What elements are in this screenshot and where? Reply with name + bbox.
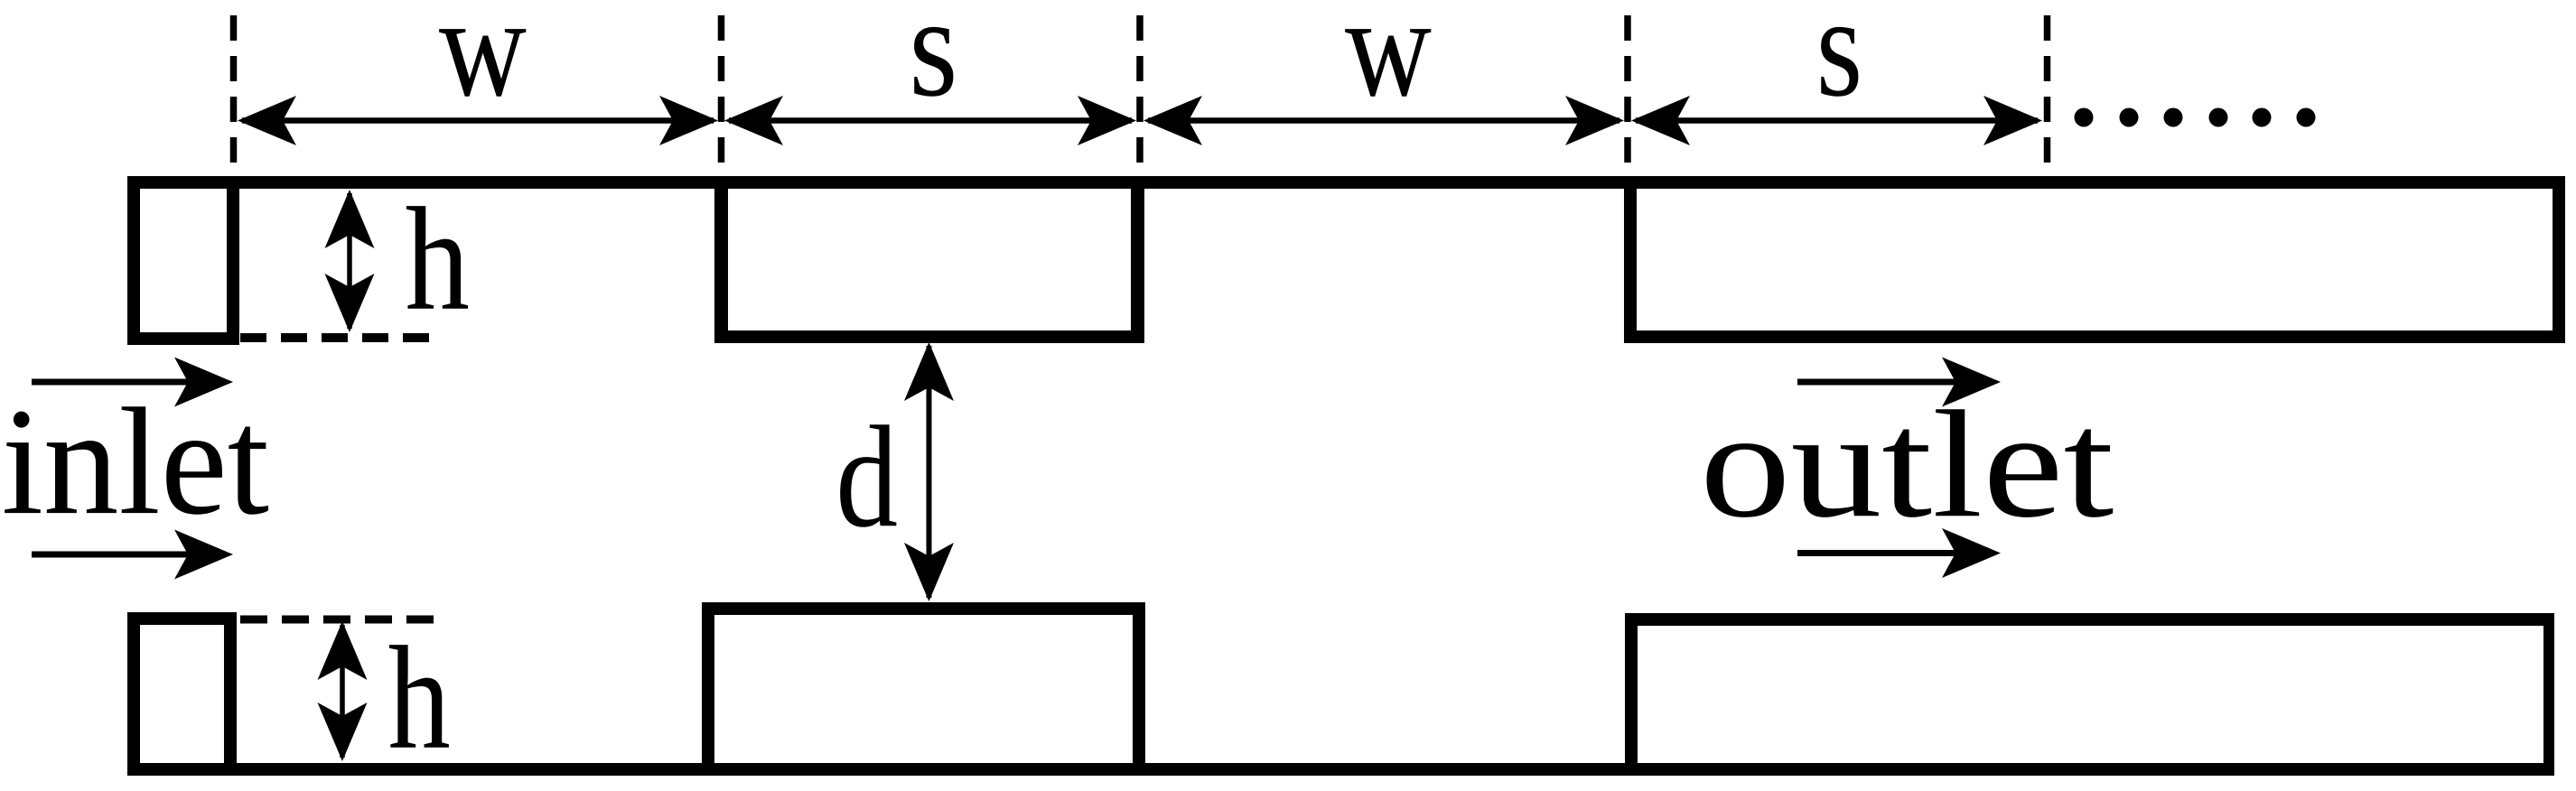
dashed extension line 4 <box>1624 15 1631 176</box>
svg-text:h: h <box>388 616 451 780</box>
d dimension arrow <box>904 342 954 601</box>
ellipsis dots <box>2075 108 2316 127</box>
dimension arrow s (first span) <box>724 96 1136 145</box>
bottom channel wall <box>127 763 2554 776</box>
top-left rib block <box>127 176 239 345</box>
svg-text:w: w <box>439 0 527 126</box>
bottom-right rib block <box>1625 613 2554 776</box>
dashed extension line 1 <box>230 15 238 176</box>
bottom h reference dashed line <box>240 616 434 624</box>
outlet lower flow arrow <box>1797 528 2001 578</box>
bottom-left rib block <box>127 612 237 776</box>
svg-text:d: d <box>835 396 898 558</box>
svg-text:w: w <box>1345 0 1432 126</box>
dimension arrow w (second span) <box>1143 96 1624 145</box>
top h reference dashed line <box>240 333 434 342</box>
dashed extension line 3 <box>1136 15 1143 176</box>
svg-text:s: s <box>909 0 957 126</box>
inlet upper flow arrow <box>32 358 233 407</box>
svg-text:inlet: inlet <box>2 377 269 547</box>
dimension arrow s (second span) <box>1631 96 2042 145</box>
top channel wall <box>127 176 2565 189</box>
top-right rib block <box>1624 176 2565 343</box>
svg-text:h: h <box>406 178 470 341</box>
svg-text:s: s <box>1816 0 1862 126</box>
dimension arrow w (first span) <box>238 96 718 145</box>
dashed extension line 5 <box>2044 15 2051 176</box>
bottom-middle rib block <box>702 602 1145 776</box>
top-middle rib block <box>714 176 1144 343</box>
outlet upper flow arrow <box>1797 358 2001 407</box>
inlet lower flow arrow <box>32 530 233 580</box>
bottom h dimension arrow <box>318 621 368 761</box>
svg-text:outlet: outlet <box>1700 380 2114 550</box>
dashed extension line 2 <box>718 15 725 176</box>
top h dimension arrow <box>325 190 375 332</box>
